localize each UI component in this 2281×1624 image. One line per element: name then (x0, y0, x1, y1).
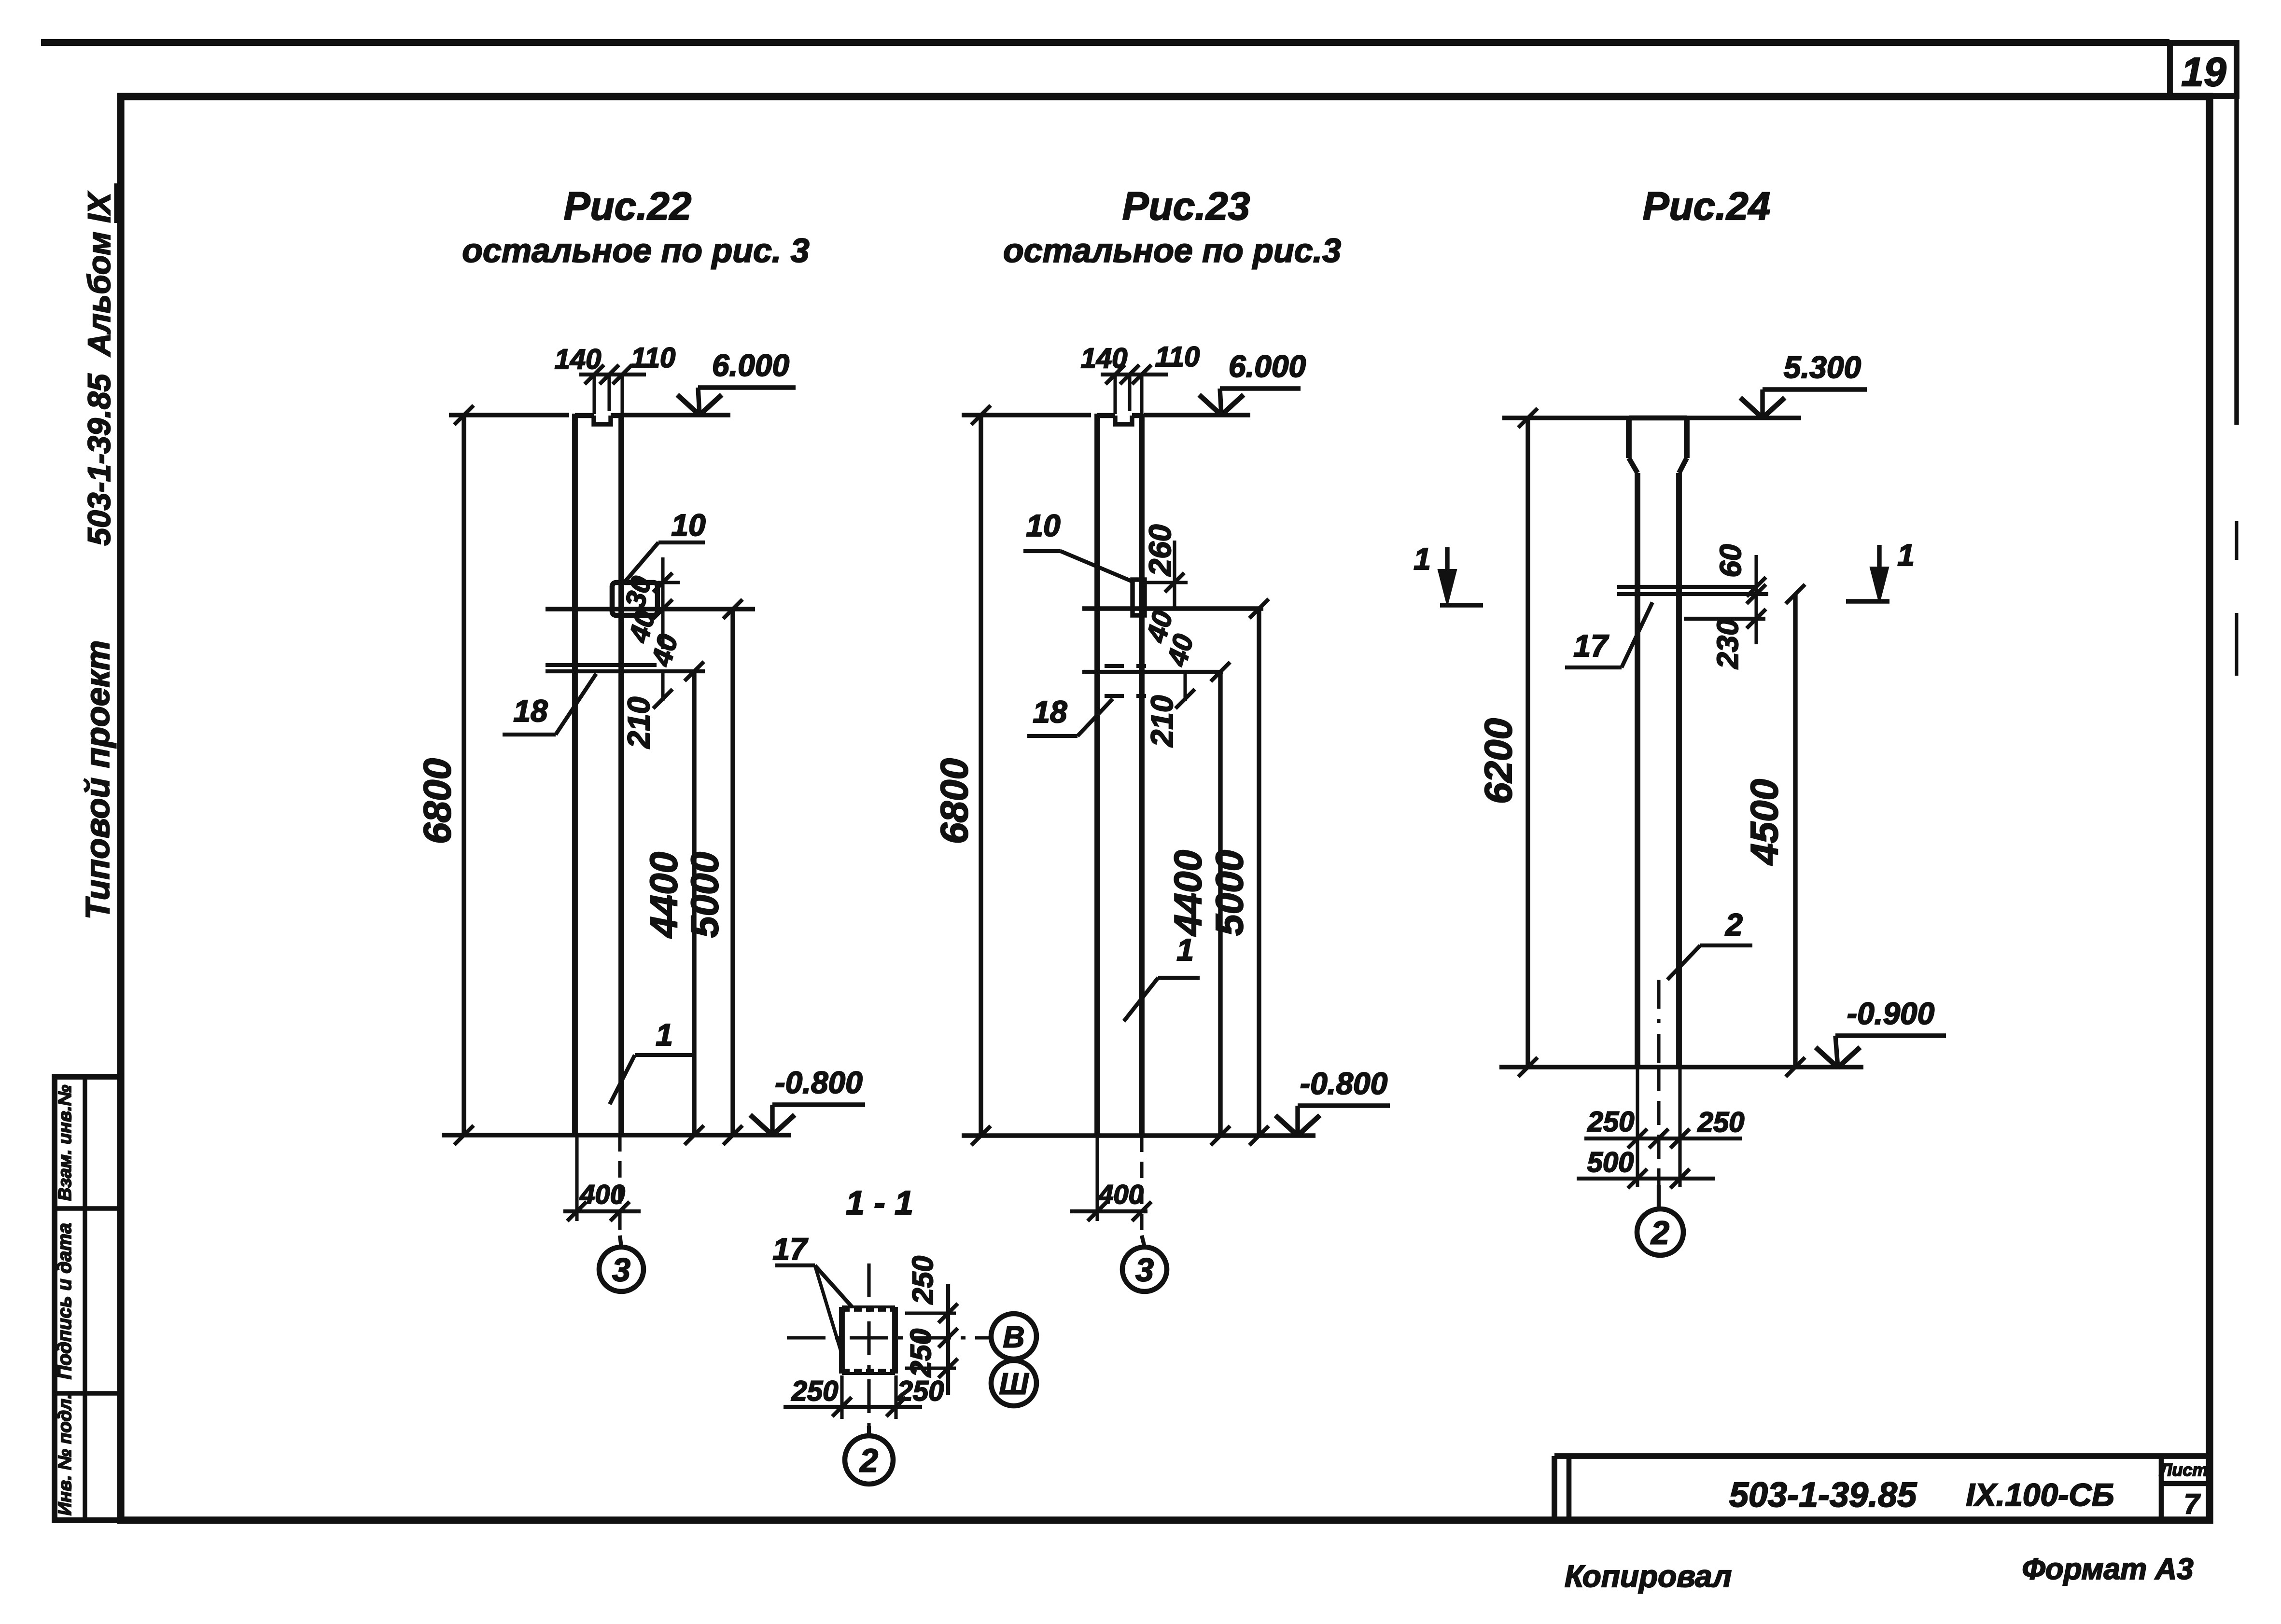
svg-text:1: 1 (1897, 538, 1915, 572)
svg-text:Типовой проект: Типовой проект (79, 640, 116, 920)
svg-text:-0.800: -0.800 (1300, 1066, 1387, 1101)
svg-text:1: 1 (656, 1017, 673, 1052)
svg-text:210: 210 (1145, 695, 1179, 748)
svg-text:2: 2 (1650, 1214, 1669, 1251)
svg-text:250: 250 (1697, 1107, 1745, 1138)
svg-text:2: 2 (1725, 907, 1743, 942)
svg-text:110: 110 (1155, 341, 1200, 373)
svg-text:250: 250 (791, 1375, 839, 1407)
svg-text:Рис.24: Рис.24 (1643, 184, 1770, 228)
svg-text:1 - 1: 1 - 1 (846, 1184, 913, 1221)
svg-text:Копировал: Копировал (1565, 1559, 1732, 1594)
svg-text:18: 18 (1033, 694, 1067, 729)
svg-text:Рис.22: Рис.22 (564, 184, 691, 228)
svg-text:Подпись и дата: Подпись и дата (54, 1223, 75, 1379)
svg-text:3: 3 (1135, 1251, 1154, 1288)
svg-text:4500: 4500 (1743, 779, 1786, 866)
svg-text:5000: 5000 (683, 852, 726, 938)
svg-text:В: В (1003, 1320, 1025, 1354)
svg-text:503-1-39.85 Альбом IX: 503-1-39.85 Альбом IX (81, 191, 117, 545)
svg-text:Инв. № подл.: Инв. № подл. (55, 1394, 75, 1516)
svg-text:17: 17 (772, 1232, 809, 1266)
svg-text:Формат А3: Формат А3 (2022, 1553, 2193, 1586)
svg-text:5000: 5000 (1208, 850, 1251, 936)
svg-text:110: 110 (631, 342, 675, 374)
svg-text:-0.900: -0.900 (1847, 996, 1934, 1031)
svg-text:60: 60 (1714, 544, 1748, 578)
svg-text:5.300: 5.300 (1784, 350, 1861, 385)
svg-text:140: 140 (555, 344, 602, 375)
svg-text:Ш: Ш (999, 1367, 1029, 1401)
svg-text:7: 7 (2184, 1488, 2201, 1520)
svg-text:6.000: 6.000 (1229, 349, 1306, 384)
svg-text:Лист: Лист (2159, 1460, 2208, 1480)
svg-text:остальное по рис. 3: остальное по рис. 3 (462, 232, 810, 269)
svg-text:10: 10 (1026, 508, 1060, 543)
svg-text:400: 400 (579, 1179, 625, 1209)
svg-text:260: 260 (1143, 525, 1177, 577)
svg-text:250: 250 (907, 1256, 939, 1305)
svg-text:IX.100-СБ: IX.100-СБ (1966, 1477, 2114, 1513)
svg-text:6.000: 6.000 (712, 348, 789, 383)
svg-text:400: 400 (1098, 1179, 1143, 1209)
svg-text:Взам. инв.№: Взам. инв.№ (55, 1085, 75, 1201)
svg-text:6800: 6800 (416, 758, 459, 844)
svg-text:210: 210 (621, 697, 656, 749)
svg-text:6800: 6800 (933, 758, 976, 844)
svg-text:остальное по рис.3: остальное по рис.3 (1003, 232, 1341, 269)
svg-text:500: 500 (1587, 1147, 1634, 1178)
svg-text:2: 2 (859, 1442, 878, 1479)
svg-text:1: 1 (1413, 541, 1431, 576)
svg-text:18: 18 (513, 694, 548, 728)
svg-text:6200: 6200 (1477, 718, 1520, 804)
svg-text:17: 17 (1573, 628, 1609, 663)
svg-text:Рис.23: Рис.23 (1122, 184, 1250, 228)
svg-text:4400: 4400 (1166, 850, 1209, 937)
svg-text:3: 3 (612, 1251, 630, 1288)
svg-text:19: 19 (2181, 49, 2226, 95)
svg-text:-0.800: -0.800 (775, 1065, 862, 1100)
svg-text:10: 10 (671, 508, 705, 542)
svg-text:4400: 4400 (642, 852, 685, 939)
svg-text:250: 250 (897, 1375, 944, 1407)
svg-text:250: 250 (905, 1329, 937, 1377)
svg-text:230: 230 (1711, 619, 1745, 669)
svg-text:1: 1 (1176, 932, 1194, 967)
svg-text:503-1-39.85: 503-1-39.85 (1729, 1476, 1917, 1514)
svg-text:250: 250 (1587, 1106, 1635, 1138)
